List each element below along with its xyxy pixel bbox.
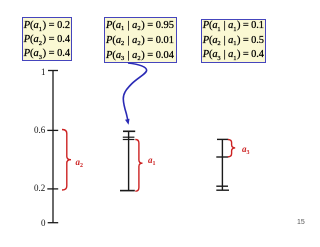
interval a1: top cap <box>123 130 135 132</box>
brace label a2 <box>76 157 84 169</box>
axis tick 0.6 <box>47 129 58 131</box>
interval a3: bottom double cap lower <box>216 189 229 191</box>
brace label a1 <box>148 155 156 167</box>
brace a1 <box>135 140 142 192</box>
interval a3: second cap <box>216 156 228 158</box>
arrowhead <box>125 119 130 125</box>
interval a1: vertical line <box>128 131 130 190</box>
interval a1: double line upper <box>123 136 135 138</box>
brace label a3 <box>242 144 250 156</box>
box 3: conditionals given a1 <box>201 19 267 64</box>
interval a1: double line lower <box>123 139 135 141</box>
probability axis vertical line <box>52 71 54 223</box>
interval a3: top cap <box>217 138 228 140</box>
interval a3: bottom double cap upper <box>216 185 228 187</box>
box 2: conditionals given a2 <box>104 17 177 64</box>
axis tick label 0.6 <box>34 125 45 135</box>
axis tick 1 <box>48 70 58 72</box>
brace a2 (axis 0.6 to 0.2) <box>62 130 71 191</box>
axis tick label 0 <box>41 218 46 228</box>
axis tick label 1 <box>41 67 46 77</box>
axis tick 0.2 <box>47 188 58 190</box>
box 1: priors P(a_i) <box>22 17 72 61</box>
arrow from box2 to interval a1 (blue S-curve) <box>123 63 146 120</box>
brace a3 <box>228 140 235 157</box>
interval a3: vertical line <box>221 139 223 190</box>
interval a1: bottom cap <box>120 190 135 192</box>
axis tick 0 <box>48 222 59 224</box>
axis tick label 0.2 <box>34 183 45 193</box>
page number <box>297 219 305 226</box>
